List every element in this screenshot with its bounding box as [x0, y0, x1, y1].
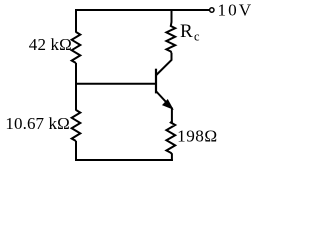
svg-text:10.67 kΩ: 10.67 kΩ — [5, 114, 69, 133]
svg-text:42 kΩ: 42 kΩ — [29, 35, 72, 54]
wire emitter vertical — [171, 108, 173, 123]
transistor Q1 base bar — [155, 69, 157, 94]
wire left vertical middle — [75, 63, 77, 111]
resistor 42k — [72, 32, 81, 63]
wire top rail — [75, 9, 209, 11]
svg-text:c: c — [194, 30, 200, 44]
resistor 198 — [166, 122, 175, 162]
resistor Rc — [166, 10, 175, 53]
resistor 10.67k — [72, 110, 81, 141]
transistor Q1 emitter lead — [156, 92, 170, 107]
svg-text:R: R — [180, 21, 193, 42]
svg-text:10V: 10V — [218, 1, 254, 20]
svg-text:198Ω: 198Ω — [177, 127, 218, 146]
terminal 10V — [210, 8, 214, 12]
transistor Q1 emitter arrowhead — [163, 100, 172, 108]
wire left vertical top — [75, 9, 77, 33]
wire bottom rail — [75, 159, 173, 161]
wire left vertical bottom — [75, 141, 77, 161]
wire base — [76, 83, 156, 85]
transistor Q1 collector lead — [156, 53, 171, 75]
